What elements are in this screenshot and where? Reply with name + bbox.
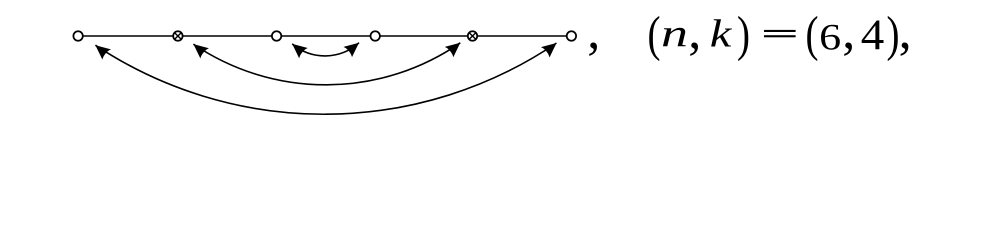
svg-text:,: , xyxy=(587,3,600,60)
svg-text:,: , xyxy=(842,3,855,60)
svg-text:,: , xyxy=(899,3,912,60)
svg-text:(: ( xyxy=(806,6,819,62)
svg-text:k: k xyxy=(710,13,732,56)
svg-text:6: 6 xyxy=(819,17,841,58)
svg-text:4: 4 xyxy=(861,12,885,59)
svg-text:n: n xyxy=(661,13,688,56)
svg-text:): ) xyxy=(887,6,900,62)
svg-text:): ) xyxy=(737,6,750,62)
svg-text:,: , xyxy=(688,3,701,60)
svg-text:(: ( xyxy=(648,6,661,62)
